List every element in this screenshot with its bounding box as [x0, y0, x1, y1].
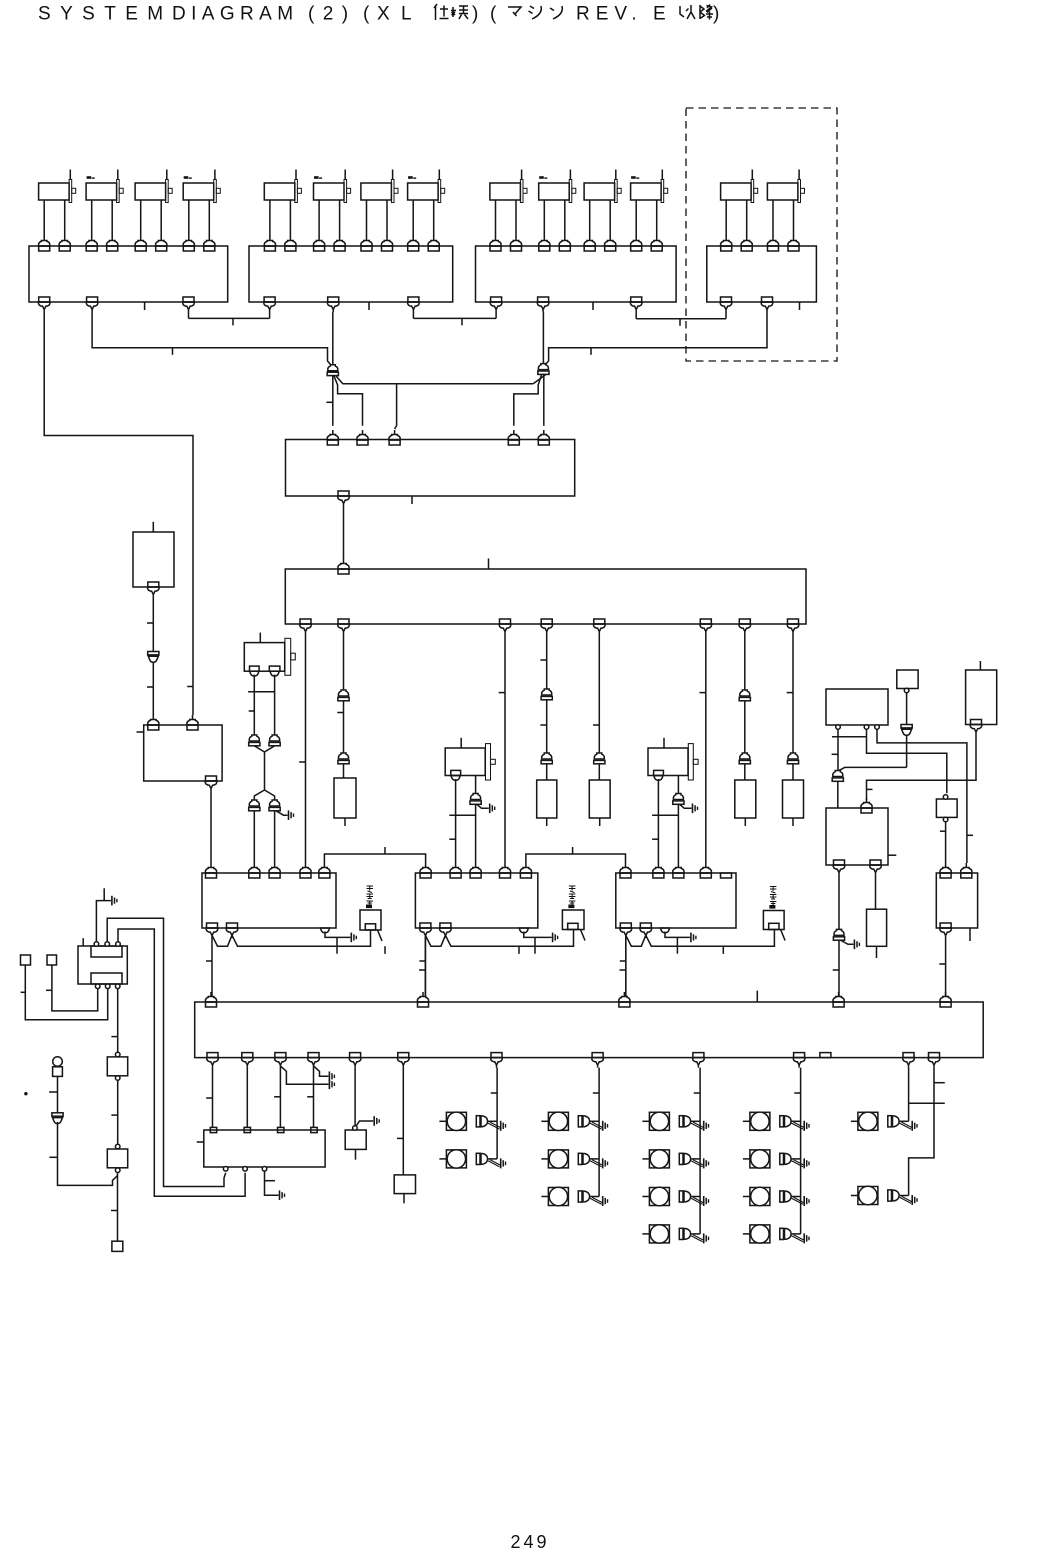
wire bus to clutch column 3	[699, 1068, 701, 1234]
sensor box CS	[763, 911, 784, 930]
wire B to bus	[424, 937, 426, 997]
wire bus to L pin2	[246, 1068, 248, 1128]
connector plug into B1 top	[39, 236, 50, 251]
svg-text:): )	[713, 4, 719, 25]
wire bus box A pin5 to box B pin1	[324, 854, 425, 863]
inline connector	[470, 793, 481, 804]
connector socket A bottom	[206, 923, 218, 938]
wire box B to bus	[424, 937, 426, 997]
wire motor J pair	[254, 675, 274, 735]
connector socket bus bottom	[308, 1053, 320, 1068]
wire cross link	[449, 814, 475, 816]
dashed enclosure box	[686, 108, 837, 361]
inline connector	[541, 753, 552, 764]
solenoid clutch	[439, 1112, 497, 1130]
driver box B1	[29, 246, 228, 302]
connector plug into B1 top	[156, 236, 167, 251]
wire to ground	[665, 932, 690, 938]
wire tick	[337, 712, 343, 714]
pushbutton P2	[107, 1149, 127, 1168]
wire to ground	[276, 811, 288, 815]
connector socket bus bottom	[349, 1053, 361, 1068]
wire T1 to relay	[25, 965, 107, 1020]
connector socket W2 bottom	[300, 619, 312, 634]
small box F	[897, 670, 918, 689]
dot mark	[24, 1092, 27, 1095]
connector plug into B1 top	[86, 236, 97, 251]
connector plug into B2 top	[428, 236, 439, 251]
wire J2 branch left	[533, 375, 545, 384]
wire motor M14 leads	[773, 200, 794, 236]
leader line AS	[378, 930, 383, 941]
connector plug into C	[700, 863, 711, 878]
wire twisted to ground	[691, 1160, 703, 1167]
connector socket B1 bottom	[38, 297, 50, 312]
connector plug into bus	[619, 992, 630, 1007]
wire ground branch	[280, 1066, 328, 1084]
inline connector	[739, 753, 750, 764]
sensor box BS	[562, 910, 584, 930]
connector socket W1 bottom	[338, 491, 350, 506]
wire tick	[49, 1091, 57, 1093]
connector plug into B3 top	[605, 236, 616, 251]
wire CE to box E2 top	[837, 781, 839, 808]
wire link E1-E2	[832, 736, 867, 738]
svg-text:SYSTEM: SYSTEM	[38, 4, 173, 25]
connector plug into W1	[538, 430, 549, 445]
solenoid clutch	[851, 1186, 909, 1204]
wire tick	[299, 761, 305, 763]
connector plug into B1 top	[183, 236, 194, 251]
inline connector	[52, 1113, 63, 1124]
ground	[603, 1158, 608, 1168]
controller box W2	[285, 569, 806, 624]
wire tick	[307, 1096, 313, 1098]
wire W2 resistor chain 4	[744, 634, 746, 780]
inline connector	[739, 690, 750, 701]
pin circle P1	[115, 1076, 120, 1081]
pin rect bus spare	[820, 1053, 831, 1058]
wire tick	[461, 318, 463, 325]
pin circle E3	[875, 725, 880, 730]
wire tick	[722, 946, 724, 954]
solenoid clutch	[642, 1225, 700, 1243]
stub below R5	[792, 818, 794, 826]
wire tick	[111, 1036, 117, 1038]
wire tick	[147, 686, 153, 688]
wire motor M11 leads	[590, 200, 611, 236]
wire tick	[593, 1092, 599, 1094]
wire A to bus	[211, 937, 213, 997]
label text AS	[367, 886, 374, 908]
solenoid clutch	[743, 1187, 801, 1205]
connector plug into C	[673, 863, 684, 878]
ground	[329, 1080, 334, 1090]
connector plug into B4 top	[721, 236, 732, 251]
solenoid clutch	[642, 1150, 700, 1168]
motor M12	[631, 170, 668, 203]
ground	[374, 1116, 379, 1126]
wire twisted pair A	[212, 930, 371, 946]
connector plug into K pin1	[148, 715, 159, 730]
io box L	[204, 1130, 325, 1167]
wire relay c3 bottom to P1	[117, 989, 119, 1053]
stub above relay	[82, 938, 84, 946]
connector plug into B2 top	[285, 236, 296, 251]
connector plug into K pin2	[187, 715, 198, 730]
distribution bus box	[195, 1002, 984, 1058]
pin rect L top	[311, 1127, 317, 1132]
inline connector	[541, 689, 552, 700]
connector socket B1 bottom	[86, 297, 98, 312]
connector plug into B3 top	[490, 236, 501, 251]
wire tick	[518, 946, 520, 954]
wire cross link	[248, 691, 275, 693]
wire to ground	[477, 805, 489, 809]
wire twisted merge	[254, 746, 274, 800]
wire tick	[326, 401, 332, 403]
wire G to box D pin1	[945, 822, 947, 863]
connector plug into W2 top	[338, 559, 349, 574]
wire bus box B pin5 to box C pin1	[526, 854, 626, 863]
svg-text:): )	[472, 4, 478, 25]
wire L pin3 to ground	[265, 1171, 279, 1195]
load block R3	[589, 780, 610, 818]
wire motor M1 leads	[44, 200, 64, 236]
wire tick	[491, 1092, 497, 1094]
motor M1	[39, 170, 76, 203]
wire branch diag	[58, 1122, 118, 1185]
wire bus to L pin4	[313, 1068, 315, 1128]
pin rect L top	[244, 1127, 250, 1132]
load block R5	[783, 780, 804, 818]
wire tick	[336, 937, 338, 953]
ground	[912, 1195, 917, 1205]
connector socket W2 bottom	[787, 619, 799, 634]
stub above SB	[152, 522, 154, 532]
connector plug into B1 top	[59, 236, 70, 251]
connector socket E2 bottom	[833, 860, 845, 875]
inline connector CE	[832, 770, 843, 781]
wire tick	[867, 788, 873, 790]
pin circle relay	[115, 984, 120, 989]
wire bus to clutch column 1	[496, 1068, 498, 1159]
wire twisted to ground	[900, 1196, 912, 1203]
pin circle relay	[105, 984, 110, 989]
wire tick	[49, 1156, 57, 1158]
connector plug into C	[620, 863, 631, 878]
connector plug into B3 top	[510, 236, 521, 251]
connector socket A bottom	[226, 923, 238, 938]
wire motor MB right	[475, 776, 477, 864]
inline connector	[901, 725, 912, 736]
wire B1 pin1 to box K	[44, 312, 193, 715]
pin circle L bottom	[262, 1167, 267, 1172]
connector plug into bus	[940, 992, 951, 1007]
inline connector	[269, 735, 280, 746]
wire to ground	[680, 805, 692, 809]
connector socket bus bottom	[275, 1053, 287, 1068]
pin rect L top	[210, 1127, 216, 1132]
wire tick	[419, 969, 425, 971]
wire twisted to ground	[792, 1235, 804, 1242]
motor M10	[539, 170, 576, 203]
connector plug into B1 top	[204, 236, 215, 251]
tall box H	[966, 670, 997, 725]
wire motor M5 leads	[270, 200, 291, 236]
wire tick	[265, 1180, 276, 1182]
wire motor M7 leads	[367, 200, 388, 236]
wire twisted to ground	[691, 1122, 703, 1129]
wire tick	[593, 724, 599, 726]
wire J2 to W1 pin4	[514, 375, 542, 426]
solenoid clutch	[541, 1112, 599, 1130]
motor M7	[361, 170, 398, 203]
wire twisted to ground	[590, 1197, 602, 1204]
wire tick	[934, 1082, 945, 1084]
connector plug into B2 top	[408, 236, 419, 251]
wire tick	[206, 960, 212, 962]
connector socket B3 bottom	[537, 297, 549, 312]
connector plug into B1 top	[107, 236, 118, 251]
connector socket bus bottom	[793, 1053, 805, 1068]
wire W2 to box C pin4	[705, 634, 707, 863]
wire motor M3 leads	[141, 200, 162, 236]
wire twisted to ground	[900, 1122, 912, 1129]
wire tick	[888, 854, 896, 856]
inline connector	[249, 735, 260, 746]
ground	[490, 804, 495, 814]
connector plug into A	[300, 863, 311, 878]
wire tick	[384, 847, 386, 854]
connector plug into B3 top	[584, 236, 595, 251]
connector plug into bus	[417, 992, 428, 1007]
inline connector	[148, 652, 159, 663]
wire motor M12 leads	[636, 200, 657, 236]
connector socket W2 bottom	[499, 619, 511, 634]
wire motor MB left	[455, 779, 457, 863]
wire to ground	[841, 941, 853, 945]
connector socket D bottom	[940, 923, 952, 938]
small box G	[936, 799, 957, 817]
stub above W2	[488, 559, 490, 570]
connector socket bus bottom	[928, 1053, 940, 1068]
connector plug into B4 top	[741, 236, 752, 251]
solenoid clutch	[541, 1150, 599, 1168]
ground	[804, 1196, 809, 1206]
ground	[704, 1196, 709, 1206]
inline connector	[787, 753, 798, 764]
solenoid clutch	[851, 1112, 909, 1130]
motor M14	[767, 170, 804, 203]
connector plug into B	[470, 863, 481, 878]
stub below B2	[368, 302, 370, 310]
label text BS	[569, 886, 576, 908]
motor M5	[264, 170, 301, 203]
wire F down	[906, 693, 908, 768]
ground	[691, 933, 696, 943]
wire tick	[46, 989, 52, 991]
connector plug into D	[940, 863, 951, 878]
wire W1 to W2	[343, 506, 345, 560]
connector plug into B3 top	[539, 236, 550, 251]
wire W2 resistor chain 2	[546, 634, 548, 780]
wire twisted to ground	[590, 1122, 602, 1129]
connector plug into bus	[205, 992, 216, 1007]
connector socket under motor MB	[451, 776, 460, 781]
connector socket bus bottom	[207, 1053, 219, 1068]
ground	[804, 1158, 809, 1168]
connector plug into B1 top	[135, 236, 146, 251]
inline connector	[269, 800, 280, 811]
connector socket B2 bottom	[408, 297, 420, 312]
wire tick	[232, 318, 234, 325]
wire W2 resistor chain 1	[343, 634, 345, 778]
wire motor M2 leads	[92, 200, 113, 236]
pin rect motor J right	[269, 666, 280, 671]
pin circle L bottom	[243, 1167, 248, 1172]
wire tick	[419, 960, 425, 962]
solenoid clutch	[439, 1150, 497, 1168]
wire tick	[249, 710, 255, 712]
wire tick	[21, 991, 26, 993]
wire tick	[137, 731, 144, 733]
wire tick	[620, 960, 626, 962]
wire tick	[572, 847, 574, 854]
connector plug into C	[653, 863, 664, 878]
wire bridge B2-B3	[413, 312, 496, 318]
wire tick	[187, 686, 193, 688]
pin rect motor J left	[250, 666, 260, 671]
wire tick	[794, 1092, 800, 1094]
load block R2	[537, 780, 557, 818]
junction connector J2	[538, 364, 549, 375]
stub below W1	[411, 496, 413, 504]
connector socket SB bottom	[148, 582, 160, 597]
connector plug into B2 top	[264, 236, 275, 251]
inline connector	[338, 690, 349, 701]
motor M4	[183, 170, 220, 203]
pin circle P2	[115, 1168, 120, 1173]
wire bridge B3-B4	[636, 312, 726, 319]
wire twisted to ground	[792, 1160, 804, 1167]
leader line BS	[581, 930, 586, 941]
connector socket bus bottom	[398, 1053, 410, 1068]
wire motor M13 leads	[726, 200, 747, 236]
wire W2 to box A pin4	[305, 634, 307, 863]
connector plug into B4 top	[788, 236, 799, 251]
svg-text:(2): (2)	[308, 4, 356, 25]
load block V	[867, 909, 887, 946]
main board box A	[202, 873, 336, 928]
connector socket B4 bottom	[720, 297, 732, 312]
connector socket K bottom	[205, 776, 217, 791]
wire tick	[694, 1092, 700, 1094]
label text CS	[770, 887, 777, 909]
wire to ground	[524, 932, 552, 938]
solenoid clutch	[541, 1187, 599, 1205]
pin circle P1	[115, 1052, 120, 1057]
wire J1 to W1 pin2	[334, 376, 363, 426]
connector socket B bottom	[420, 923, 432, 938]
wire tick	[206, 1097, 212, 1099]
driver box B3	[476, 246, 677, 302]
pin circle M	[353, 1126, 358, 1131]
wire twisted pair C	[626, 930, 775, 946]
wire tick	[111, 1210, 118, 1212]
junction connector J1	[327, 365, 338, 376]
wire motor MC left	[657, 779, 659, 863]
pin circle F	[904, 688, 909, 693]
connector socket bus bottom	[592, 1053, 604, 1068]
wire E pin2 to box G	[867, 729, 947, 793]
wire E pin3 to box D pin2	[877, 729, 967, 863]
wire twisted pair B	[425, 930, 573, 946]
ground	[501, 1158, 506, 1168]
pushbutton P1	[107, 1057, 127, 1076]
connector plug into D	[961, 863, 972, 878]
wire B3 pin2 down to J2	[542, 312, 544, 364]
ground	[603, 1196, 608, 1206]
wire ground branch	[314, 1066, 329, 1076]
wire motor MC right	[677, 776, 679, 864]
sensor box N	[394, 1175, 415, 1194]
ground	[553, 933, 558, 943]
connector socket bus bottom	[491, 1053, 503, 1068]
wire W2 resistor chain 3	[598, 634, 600, 780]
svg-text:REV.: REV.	[576, 4, 643, 25]
wire tick	[590, 348, 592, 355]
svg-text:L: L	[401, 4, 412, 25]
wire to box A pins 2,3	[254, 811, 274, 863]
ground	[289, 810, 294, 820]
wire tick	[534, 937, 536, 953]
wire tick	[620, 969, 626, 971]
wire twisted to ground	[488, 1122, 500, 1129]
motor M3	[135, 170, 172, 203]
connector plug into W1	[508, 430, 519, 445]
stub below B4	[799, 302, 801, 310]
wire cross link	[652, 814, 678, 816]
wire K to box A pin1	[210, 791, 212, 863]
motor M2	[86, 170, 123, 203]
wire to ground	[325, 932, 350, 938]
wire tick	[172, 348, 174, 355]
solenoid clutch	[743, 1112, 801, 1130]
connector socket C bottom	[640, 923, 652, 938]
stub below M	[355, 1149, 357, 1159]
connector socket bus bottom	[903, 1053, 915, 1068]
solenoid clutch	[743, 1225, 801, 1243]
wire motor M8 leads	[413, 200, 434, 236]
wire B2 pin2 down to J1	[332, 312, 334, 365]
wire bus to N	[402, 1068, 404, 1175]
solenoid clutch	[642, 1187, 700, 1205]
connector socket under motor J	[250, 671, 280, 676]
pin circle G bottom	[943, 817, 948, 822]
wire J2 to W1 pin5	[543, 375, 545, 426]
connector socket W2 bottom	[338, 619, 350, 634]
wire motor M9 leads	[496, 200, 517, 236]
connector socket bus bottom	[693, 1053, 705, 1068]
stub above H	[979, 661, 981, 670]
wire E2 pin1 to bus	[838, 875, 840, 997]
sensor box SB	[133, 532, 174, 587]
wire tick	[833, 969, 839, 971]
wire P2 to terminal T3	[117, 1173, 119, 1242]
inline connector	[594, 753, 605, 764]
terminal square T2	[47, 955, 57, 965]
